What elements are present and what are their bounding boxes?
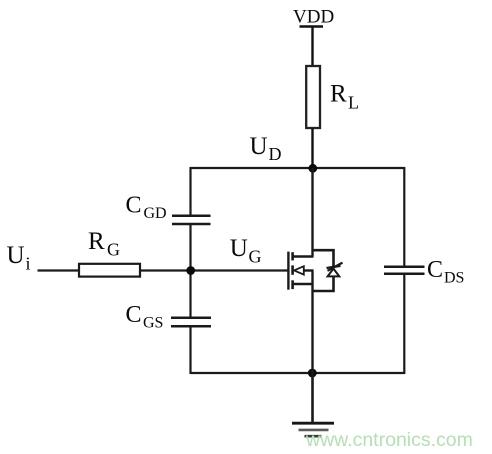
svg-text:GD: GD	[144, 205, 167, 222]
svg-text:R: R	[88, 228, 105, 255]
body lead	[304, 269, 314, 271]
wire left rail upper	[189, 167, 191, 216]
wire top rail	[191, 167, 405, 169]
svg-text:VDD: VDD	[293, 7, 334, 28]
svg-text:U: U	[250, 133, 268, 160]
svg-text:G: G	[249, 247, 262, 267]
svg-text:R: R	[330, 81, 347, 108]
ground stem	[311, 373, 314, 423]
channel segment bottom	[291, 280, 294, 289]
svg-text:C: C	[126, 302, 142, 328]
junction drain node	[308, 164, 317, 173]
channel segment top	[291, 252, 294, 260]
drain tab	[293, 255, 314, 258]
body diode D1	[313, 250, 343, 291]
capacitor C_GD	[172, 216, 211, 224]
svg-text:GS: GS	[143, 315, 163, 332]
junction gate node	[186, 266, 195, 275]
diode cathode bar	[327, 266, 341, 268]
wire left rail lower	[189, 326, 191, 374]
VDD terminal bar	[300, 25, 324, 28]
wire bottom rail	[191, 372, 405, 374]
svg-text:U: U	[7, 242, 25, 269]
wire source vertical	[311, 271, 313, 374]
wire diode bottom	[313, 276, 334, 291]
junction source node	[308, 369, 317, 378]
source tab	[293, 283, 314, 286]
wire R_L to top rail	[311, 128, 313, 169]
svg-text:i: i	[26, 254, 31, 274]
body arrow	[294, 266, 304, 274]
wire drain vertical	[311, 168, 313, 257]
wire R_G to gate	[140, 269, 289, 271]
wire VDD to R_L	[311, 27, 313, 68]
wire right rail lower	[403, 274, 405, 374]
wire diode top	[313, 250, 334, 266]
diode cathode slash	[328, 263, 343, 271]
resistor R_G	[79, 264, 140, 277]
svg-text:www.cntronics.com: www.cntronics.com	[305, 429, 473, 451]
svg-text:DS: DS	[444, 270, 464, 287]
wire left rail mid	[189, 224, 191, 318]
channel segment middle	[291, 265, 294, 274]
svg-text:L: L	[348, 93, 359, 113]
gate bar	[287, 252, 289, 290]
wire right rail upper	[403, 167, 405, 267]
ground	[292, 423, 334, 436]
resistor R_L	[306, 66, 320, 128]
diode triangle	[328, 269, 340, 277]
svg-text:G: G	[107, 240, 120, 260]
wire input	[38, 269, 81, 271]
transistor Q1 MOSFET	[288, 168, 313, 373]
capacitor C_DS	[384, 267, 425, 274]
capacitor C_GS	[171, 318, 211, 326]
svg-text:D: D	[269, 144, 282, 164]
svg-text:U: U	[230, 235, 248, 262]
svg-text:C: C	[126, 193, 142, 219]
svg-text:C: C	[427, 257, 443, 283]
